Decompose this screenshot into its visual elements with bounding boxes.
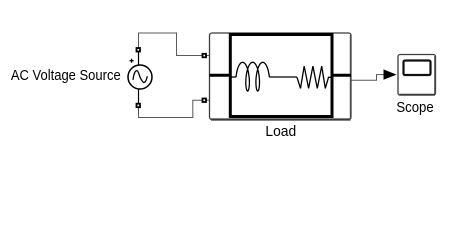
svg-text:Load: Load	[265, 123, 296, 140]
svg-text:Scope: Scope	[396, 99, 433, 116]
svg-text:AC Voltage Source: AC Voltage Source	[11, 67, 121, 84]
